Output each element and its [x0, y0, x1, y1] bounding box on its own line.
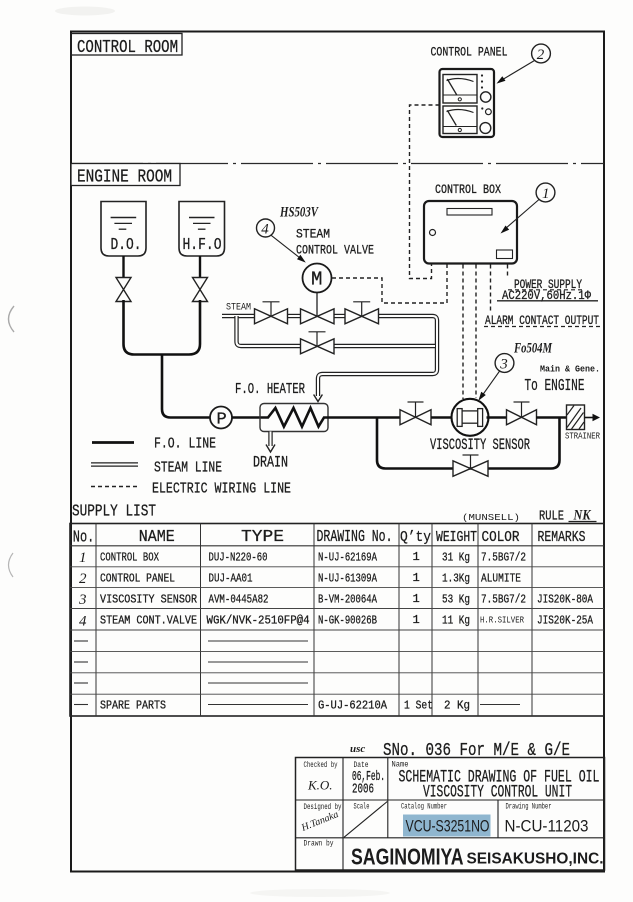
svg-text:SEISAKUSHO,INC.: SEISAKUSHO,INC. [467, 851, 604, 868]
spare parts row [74, 704, 88, 706]
svg-text:Scale: Scale [354, 803, 370, 812]
steam pipe v2-v3 [333, 314, 346, 318]
table column lines [95, 524, 97, 717]
main border frame [71, 32, 604, 872]
svg-text:2: 2 [537, 47, 545, 63]
svg-text:ELECTRIC WIRING LINE: ELECTRIC WIRING LINE [152, 481, 291, 498]
room divider chain line [71, 163, 604, 165]
svg-text:3: 3 [499, 357, 508, 373]
faint bottom smudge [250, 889, 390, 897]
svg-text:Fo504M: Fo504M [513, 341, 552, 357]
svg-text:usc: usc [350, 743, 365, 755]
tank D.O. [101, 202, 146, 257]
steam bypass drop left (double) [237, 316, 302, 346]
svg-text:4: 4 [79, 614, 87, 630]
steam pipe v3 to right drop and return to heater (double) [318, 316, 437, 396]
svg-text:N-CU-11203: N-CU-11203 [505, 817, 589, 836]
svg-text:1: 1 [413, 592, 420, 606]
svg-text:H.F.O: H.F.O [183, 235, 222, 254]
svg-text:7.5BG7/2: 7.5BG7/2 [481, 551, 526, 565]
svg-text:1: 1 [79, 550, 87, 566]
callout 4 arrow [271, 235, 301, 258]
svg-text:VCU-S3251NO: VCU-S3251NO [406, 817, 490, 836]
pipe heater to valve [328, 416, 400, 419]
valve left of sensor [400, 410, 431, 425]
svg-text:VISCOSITY SENSOR: VISCOSITY SENSOR [430, 436, 530, 454]
strainer [567, 405, 585, 430]
svg-text:Q’ty: Q’ty [400, 529, 431, 546]
svg-text:Date: Date [354, 761, 369, 770]
svg-text:Drawn by: Drawn by [304, 840, 334, 849]
callout 3 circle [495, 354, 514, 373]
callout 1 arrow [505, 200, 539, 230]
legend F.O. line [92, 441, 134, 444]
svg-text:DUJ-AA01: DUJ-AA01 [209, 572, 253, 586]
svg-text:N-UJ-62169A: N-UJ-62169A [318, 551, 378, 565]
svg-text:CONTROL PANEL: CONTROL PANEL [100, 572, 175, 586]
steam arrow into heater [314, 395, 323, 402]
pump P [210, 407, 232, 429]
svg-text:COLOR: COLOR [482, 529, 520, 546]
callout 1 circle [536, 183, 555, 202]
scan smudge top [55, 7, 115, 16]
legend steam line [91, 462, 138, 466]
steam valve 3 [345, 309, 379, 324]
wire box to sensor a [462, 265, 464, 400]
svg-text:DUJ-N220-60: DUJ-N220-60 [209, 551, 268, 565]
svg-text:K.O.: K.O. [307, 778, 333, 793]
svg-text:VISCOSITY SENSOR: VISCOSITY SENSOR [100, 593, 197, 607]
svg-text:SUPPLY LIST: SUPPLY LIST [72, 502, 156, 521]
svg-text:1: 1 [413, 550, 420, 564]
pipe pump to heater [232, 416, 261, 419]
margin mark lower [9, 553, 14, 577]
pipe sensor to right valve [487, 416, 509, 419]
svg-text:B-VM-20064A: B-VM-20064A [318, 593, 378, 607]
control box [424, 201, 517, 264]
svg-text:JIS20K-25A: JIS20K-25A [537, 614, 594, 628]
svg-text:Drawing Number: Drawing Number [506, 803, 552, 812]
steam valve 1 [255, 309, 288, 324]
svg-text:1: 1 [542, 186, 550, 202]
svg-text:No.: No. [73, 529, 95, 548]
svg-text:NAME: NAME [139, 528, 175, 547]
valve under H.F.O [193, 278, 208, 302]
callout 2 circle [532, 44, 551, 63]
svg-text:Main & Gene.: Main & Gene. [540, 365, 600, 375]
svg-text:D.O.: D.O. [111, 235, 142, 254]
svg-text:1: 1 [413, 613, 420, 627]
control panel [440, 69, 495, 137]
steam line entry (double) [222, 314, 255, 318]
valve right of sensor [507, 410, 537, 425]
heater element zigzag [261, 408, 328, 427]
svg-text:H.R.SILVER: H.R.SILVER [480, 616, 524, 626]
steam control valve (motor) [301, 309, 335, 324]
svg-text:1 Set: 1 Set [404, 699, 433, 713]
svg-text:(MUNSELL): (MUNSELL) [462, 512, 520, 523]
svg-text:53 Kg: 53 Kg [442, 593, 470, 607]
callout 3 arrow [482, 371, 501, 397]
svg-text:1: 1 [413, 571, 420, 585]
svg-text:2006: 2006 [352, 783, 374, 798]
svg-text:ENGINE ROOM: ENGINE ROOM [77, 167, 172, 188]
svg-text:JIS20K-80A: JIS20K-80A [537, 593, 594, 607]
svg-text:4: 4 [261, 222, 269, 238]
valve under D.O. [116, 278, 131, 302]
svg-text:CONTROL BOX: CONTROL BOX [100, 551, 159, 565]
svg-text:3: 3 [78, 592, 87, 608]
svg-text:SAGINOMIYA: SAGINOMIYA [351, 844, 464, 870]
svg-text:CONTROL ROOM: CONTROL ROOM [77, 37, 178, 58]
svg-text:G-UJ-62210A: G-UJ-62210A [318, 699, 388, 713]
svg-text:Catalog Number: Catalog Number [401, 803, 447, 812]
margin mark upper [9, 306, 15, 332]
heater drain pipe (double) [268, 432, 272, 447]
svg-text:N-UJ-61309A: N-UJ-61309A [318, 572, 378, 586]
svg-text:CONTROL VALVE: CONTROL VALVE [296, 243, 374, 258]
svg-text:P: P [217, 411, 227, 430]
svg-text:WGK/NVK-2510FP@4: WGK/NVK-2510FP@4 [207, 614, 310, 628]
control room label box [71, 34, 182, 56]
H.F.O feed pipe [199, 256, 201, 278]
svg-text:ALUMITE: ALUMITE [481, 572, 521, 586]
callout 2 arrow [501, 61, 535, 81]
svg-text:11 Kg: 11 Kg [442, 614, 470, 628]
pipe valve to sensor [431, 416, 452, 419]
steam pipe v1-v2 [287, 314, 301, 318]
svg-text:DRAWING No.: DRAWING No. [317, 528, 393, 547]
svg-text:DRAIN: DRAIN [253, 454, 288, 472]
tank H.F.O [179, 202, 225, 257]
svg-text:F.O. LINE: F.O. LINE [154, 436, 216, 453]
pipe valve to strainer [536, 416, 567, 419]
callout 4 circle [257, 219, 275, 237]
svg-text:F.O. HEATER: F.O. HEATER [235, 382, 305, 398]
supply list table frame [70, 524, 604, 717]
viscosity sensor Fo504M [452, 399, 489, 436]
svg-text:To ENGINE: To ENGINE [525, 376, 585, 395]
F.O. pipe tanks merge [124, 300, 201, 355]
svg-text:SPARE PARTS: SPARE PARTS [100, 699, 166, 713]
svg-text:N-GK-90026B: N-GK-90026B [318, 614, 377, 628]
wire alarm output [490, 265, 492, 314]
empty rows dashes [74, 640, 88, 642]
svg-text:7.5BG7/2: 7.5BG7/2 [481, 593, 526, 607]
svg-text:HS503V: HS503V [279, 205, 319, 221]
steam bypass valve 4 [301, 339, 335, 354]
svg-text:WEIGHT: WEIGHT [436, 529, 477, 546]
F.O. heater box [260, 404, 328, 432]
svg-text:STEAM: STEAM [226, 302, 251, 314]
wire panel to box [410, 105, 440, 279]
svg-text:STEAM: STEAM [296, 227, 330, 242]
wire M valve to box [332, 265, 447, 304]
svg-text:STEAM CONT.VALVE: STEAM CONT.VALVE [100, 614, 197, 628]
svg-text:STEAM LINE: STEAM LINE [154, 460, 222, 477]
sensor bypass pipe [377, 418, 560, 469]
svg-text:2 Kg: 2 Kg [444, 699, 470, 713]
svg-text:STRAINER: STRAINER [565, 432, 600, 442]
svg-text:AVM-0445A82: AVM-0445A82 [209, 593, 269, 607]
svg-text:RULE: RULE [539, 509, 564, 525]
D.O. feed pipe [122, 256, 124, 278]
steam bypass run (double) [333, 344, 435, 348]
svg-text:M: M [311, 269, 322, 291]
table row lines [70, 545, 604, 547]
bypass valve [453, 461, 488, 477]
svg-text:REMARKS: REMARKS [538, 529, 586, 546]
outlet arrow to engine [585, 417, 594, 419]
svg-text:Checked by: Checked by [304, 761, 338, 770]
wire box to sensor b [475, 265, 477, 399]
legend electric wiring line [91, 486, 140, 488]
svg-text:CONTROL PANEL: CONTROL PANEL [431, 46, 508, 60]
svg-text:1.3Kg: 1.3Kg [442, 572, 470, 586]
motor M circle [303, 264, 332, 293]
engine room label box [71, 164, 180, 186]
wire power supply [507, 265, 509, 277]
svg-text:TYPE: TYPE [241, 528, 284, 547]
F.O. pipe drop to pump [162, 355, 210, 418]
svg-text:CONTROL BOX: CONTROL BOX [435, 183, 501, 197]
svg-text:VISCOSITY CONTROL UNIT: VISCOSITY CONTROL UNIT [423, 783, 572, 803]
drain arrow [266, 445, 275, 453]
svg-text:31 Kg: 31 Kg [442, 551, 470, 565]
title block frame [296, 758, 605, 871]
svg-text:2: 2 [79, 571, 87, 587]
